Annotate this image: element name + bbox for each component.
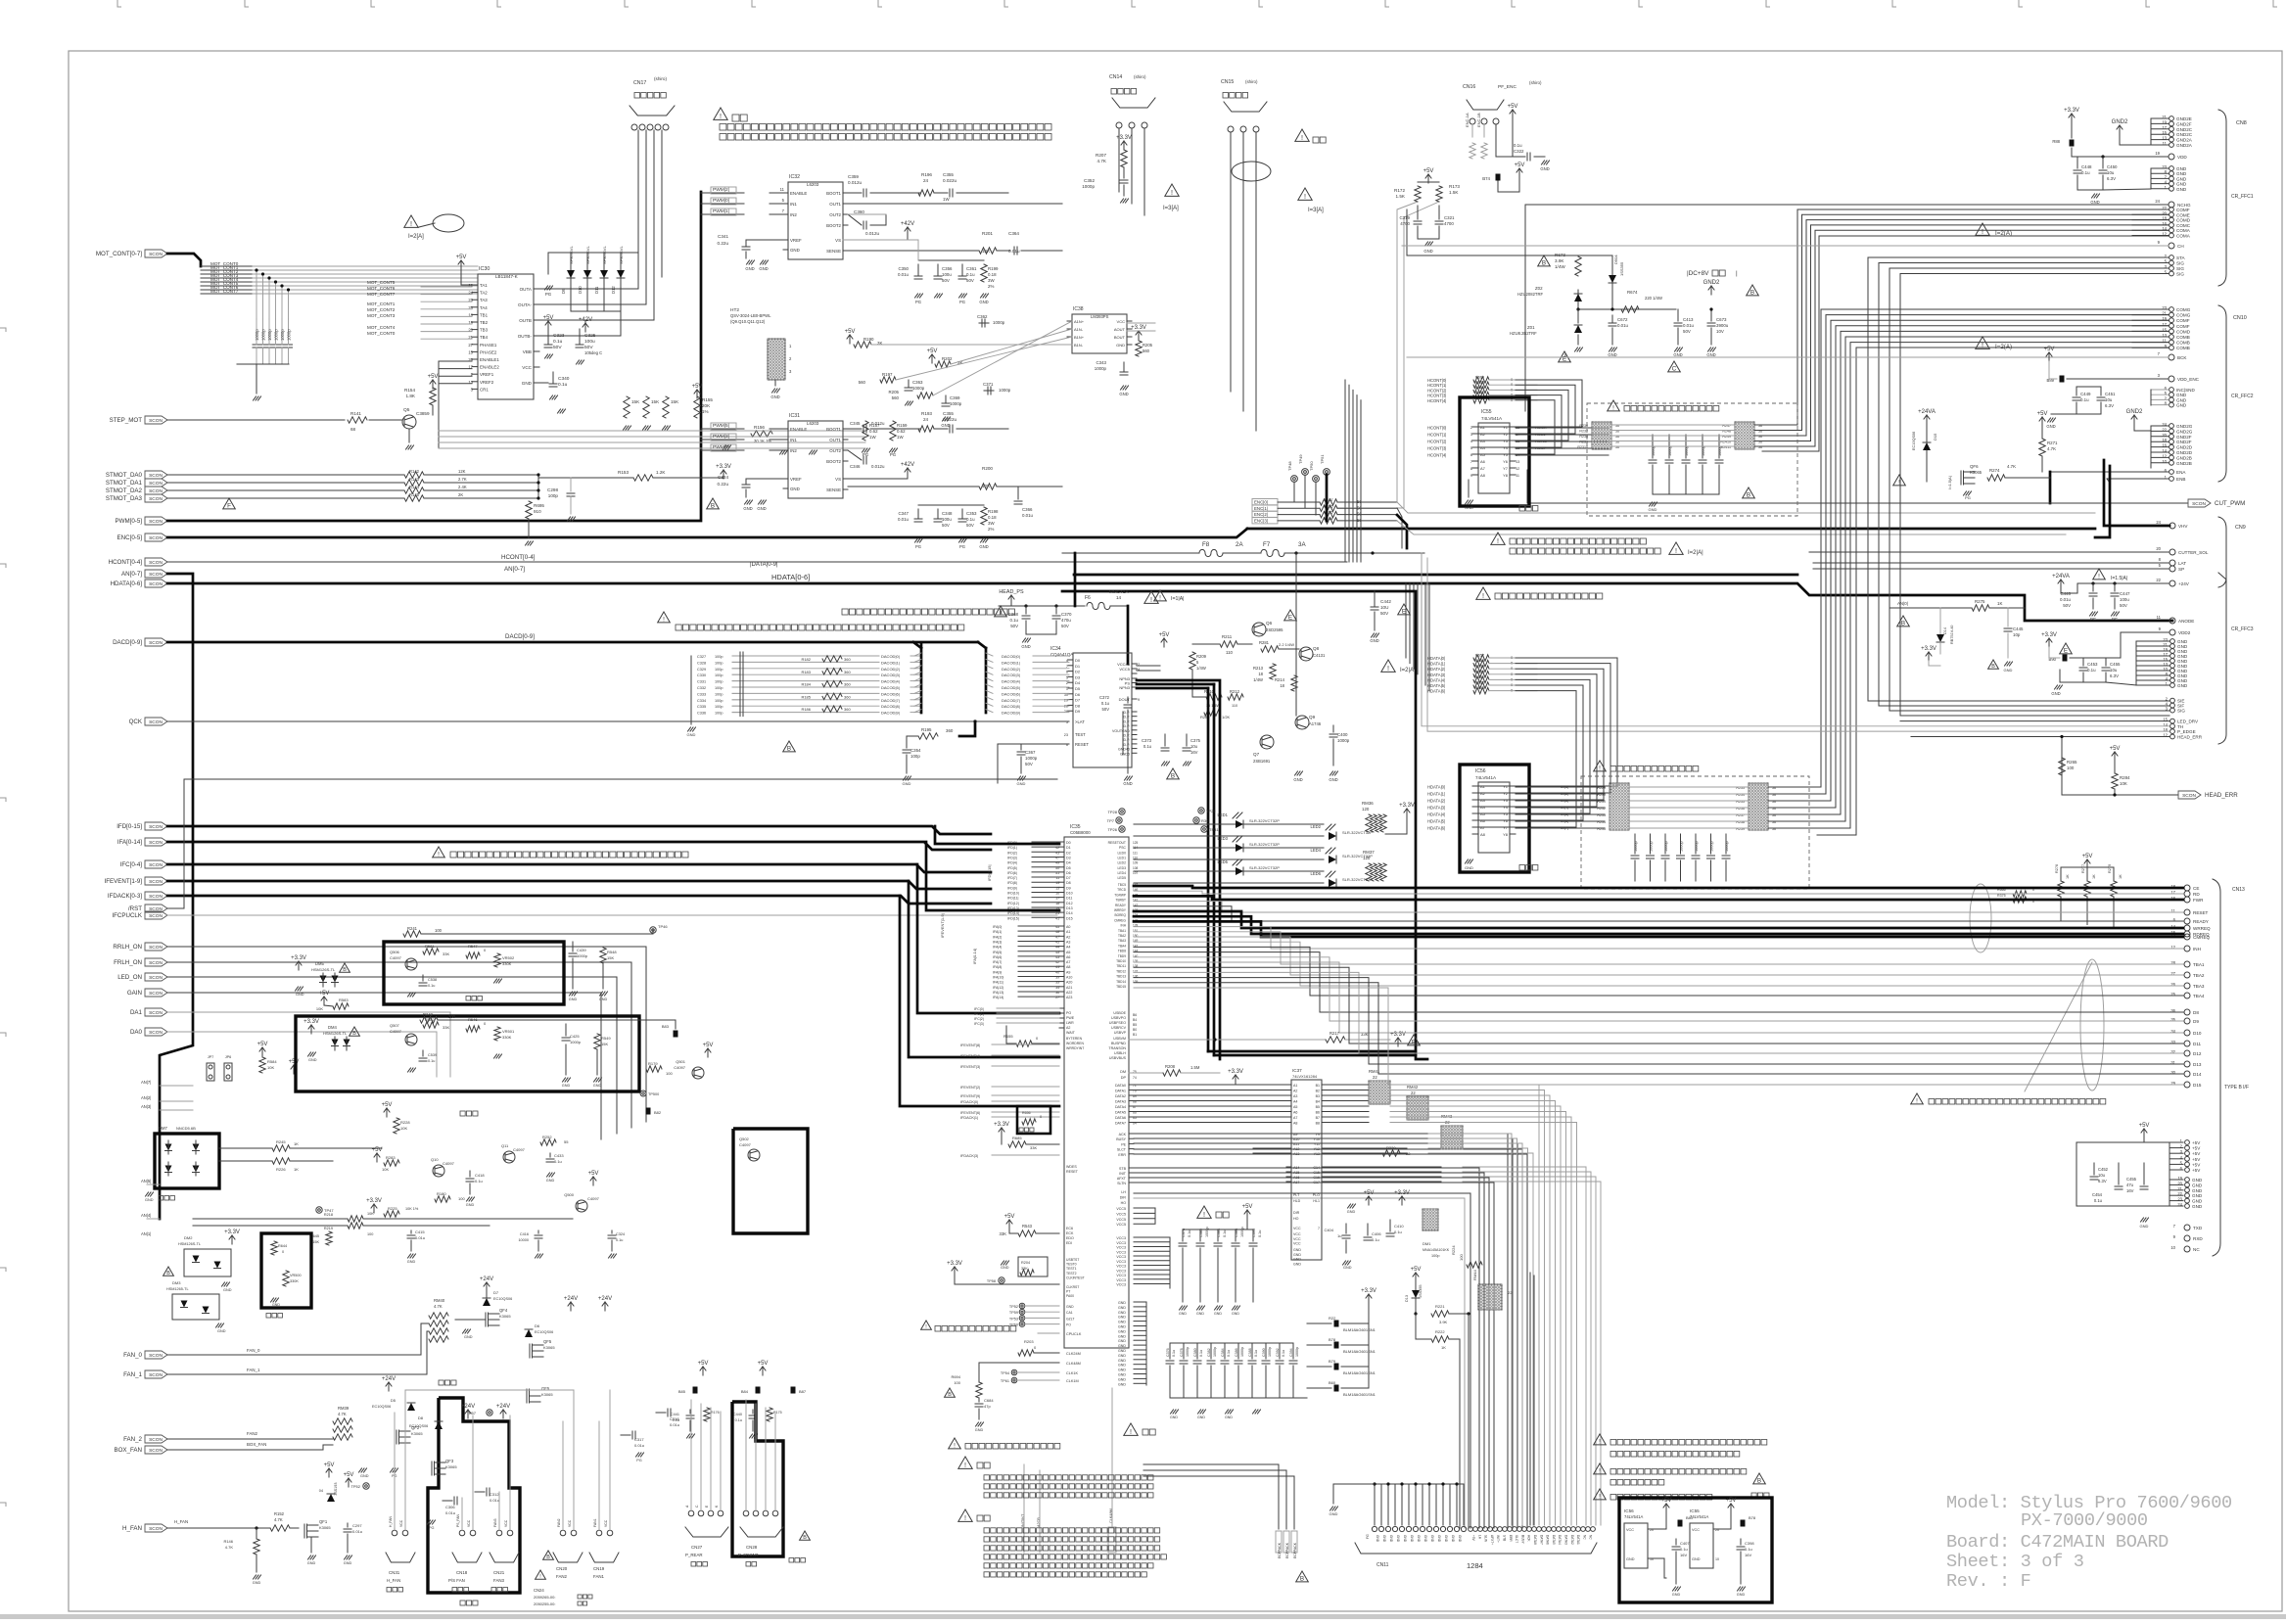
svg-text:DACOD|2|: DACOD|2| <box>881 667 900 672</box>
svg-text:C376: C376 <box>1166 1348 1170 1357</box>
svg-text:R664: R664 <box>1475 376 1484 380</box>
svg-text:TEST1: TEST1 <box>1066 1267 1077 1271</box>
svg-text:TP50: TP50 <box>1309 461 1314 471</box>
svg-text:15K: 15K <box>607 955 614 960</box>
svg-text:Y7: Y7 <box>1503 466 1509 471</box>
diode D6 EC10QS06 <box>525 1329 533 1337</box>
svg-text:!: ! <box>1982 227 1983 236</box>
small box R656 <box>1017 1106 1050 1134</box>
svg-text:D6: D6 <box>1066 871 1071 875</box>
resistor R156 30.1K 1% <box>751 431 772 437</box>
resistor R275 1K <box>1972 605 1989 611</box>
svg-text:+3.3V: +3.3V <box>1399 803 1415 809</box>
capacitor C354 100p <box>906 736 908 748</box>
svg-text:C404: C404 <box>1324 1228 1333 1232</box>
svg-text:C390: C390 <box>1262 1348 1266 1357</box>
capacitor C346 0.012u <box>848 450 862 460</box>
svg-text:USBFSEO: USBFSEO <box>1109 1021 1126 1025</box>
svg-text:C440: C440 <box>733 1413 742 1416</box>
svg-text:GND: GND <box>1444 1535 1448 1543</box>
svg-text:120: 120 <box>1363 856 1371 860</box>
svg-text:GND: GND <box>2176 403 2187 408</box>
svg-text:19: 19 <box>2155 151 2160 156</box>
svg-text:Y8: Y8 <box>1503 473 1509 478</box>
svg-text:GND: GND <box>1293 1258 1301 1262</box>
svg-text:A23: A23 <box>1066 996 1072 999</box>
svg-text:BLM18AG601SN1: BLM18AG601SN1 <box>1343 1392 1376 1397</box>
svg-text:7: 7 <box>2173 1224 2176 1229</box>
svg-text:6.3V: 6.3V <box>2107 176 2116 181</box>
svg-text:GND: GND <box>2051 691 2060 696</box>
svg-text:BUSY: BUSY <box>1116 1137 1126 1141</box>
svg-text:HO: HO <box>1121 1201 1127 1205</box>
svg-text:0: 0 <box>282 1250 284 1254</box>
svg-text:D9: D9 <box>1075 709 1081 714</box>
svg-text:D14: D14 <box>1066 911 1073 915</box>
svg-text:E: E <box>2064 647 2068 654</box>
svg-text:C416: C416 <box>520 1232 529 1236</box>
svg-text:360: 360 <box>844 682 851 687</box>
svg-text:0.01u: 0.01u <box>898 272 910 277</box>
svg-text:CN11: CN11 <box>1376 1562 1389 1568</box>
wires IC37 C outputs <box>1327 1166 1441 1168</box>
svg-text:1000p: 1000p <box>261 329 266 341</box>
svg-text:100: 100 <box>2067 766 2075 770</box>
tri B reset <box>783 741 796 752</box>
svg-text:R153: R153 <box>618 470 629 475</box>
svg-text:R146: R146 <box>223 1539 233 1544</box>
svg-text:1: 1 <box>1066 687 1068 691</box>
svg-text:HDATA|6|: HDATA|6| <box>1427 689 1445 694</box>
svg-text:C298: C298 <box>547 487 558 492</box>
svg-text:WDES: WDES <box>1066 1165 1077 1169</box>
svg-text:SCON: SCON <box>149 496 163 502</box>
svg-text:IC56: IC56 <box>1624 1508 1634 1513</box>
svg-text:DATA2: DATA2 <box>1570 1535 1574 1545</box>
svg-text:CMREG: CMREG <box>1114 918 1126 922</box>
diode D7 EC10QS06 <box>484 1282 490 1291</box>
svg-text:10u: 10u <box>1190 744 1198 749</box>
svg-text:10V: 10V <box>1716 329 1724 334</box>
testpoint TP52b <box>363 1483 369 1489</box>
svg-text:C4097: C4097 <box>390 1029 402 1034</box>
svg-text:74LV541A: 74LV541A <box>1481 416 1503 421</box>
connector CN8 NCHG pin <box>2169 202 2174 208</box>
svg-text:C392: C392 <box>1276 1348 1280 1357</box>
node GAIN <box>145 989 167 997</box>
svg-text:COMF: COMF <box>2176 208 2190 212</box>
svg-text:GND: GND <box>1293 777 1302 782</box>
svg-text:47u: 47u <box>2126 1183 2134 1187</box>
wire IFD-IFA-IFC elbow bundle <box>935 826 1059 844</box>
thick box CN28 <box>732 1402 783 1556</box>
svg-text:D9: D9 <box>1066 886 1071 890</box>
wires HCONT staircase to IC55 <box>1474 380 1582 427</box>
svg-text:A2: A2 <box>1293 1090 1297 1093</box>
svg-text:+24V: +24V <box>564 1296 578 1302</box>
svg-text:GND: GND <box>1118 1354 1126 1358</box>
svg-text:IFEVENT[1-9]: IFEVENT[1-9] <box>104 878 142 885</box>
capacitor C371 1000p <box>984 390 994 392</box>
svg-text:GND: GND <box>2192 1188 2203 1193</box>
connector CN9 bracket <box>2218 517 2226 587</box>
svg-text:VR500: VR500 <box>290 1274 302 1277</box>
svg-text:B5: B5 <box>1133 1023 1137 1027</box>
svg-text:+5V: +5V <box>372 1147 383 1153</box>
resistor R241 100 <box>403 931 421 937</box>
node FAN_0 <box>145 1351 167 1359</box>
svg-text:1000p: 1000p <box>1295 1347 1299 1357</box>
svg-text:SCON: SCON <box>149 560 163 566</box>
svg-text:HOSP: HOSP <box>1535 445 1547 450</box>
svg-text:TBD11: TBD11 <box>1116 964 1126 968</box>
svg-text:MMCT1A: MMCT1A <box>1109 589 1129 594</box>
svg-text:MOT_CONT6: MOT_CONT6 <box>367 286 396 291</box>
svg-text:SLCT: SLCT <box>1117 1148 1127 1152</box>
connector LED_DRV TH P_EDGE HEAD_ERR pins <box>2170 719 2175 723</box>
svg-text:1.5K: 1.5K <box>1396 194 1406 199</box>
svg-text:SLR-322VCT32P: SLR-322VCT32P <box>1249 842 1280 847</box>
svg-text:109: 109 <box>1133 861 1139 865</box>
svg-text:IFD|6|: IFD|6| <box>1007 871 1017 875</box>
wires q cluster <box>1192 643 1220 645</box>
svg-text:+5V: +5V <box>758 1361 769 1367</box>
svg-text:+5V: +5V <box>845 329 856 335</box>
svg-text:VCC: VCC <box>568 1519 572 1527</box>
bead B81 <box>1678 1520 1683 1527</box>
transistor Q7 2SB1691 <box>1260 735 1274 749</box>
svg-text:GND: GND <box>1626 1557 1635 1561</box>
svg-text:0.1u: 0.1u <box>1254 1350 1258 1357</box>
node FRLH_ON <box>145 958 167 966</box>
svg-text:VCC5: VCC5 <box>1116 1212 1126 1216</box>
IC55 74LV541A box <box>1460 397 1529 506</box>
svg-text:IN2: IN2 <box>790 212 797 217</box>
node STMOT_DA3 <box>145 494 167 502</box>
svg-text:TBD9: TBD9 <box>1118 954 1126 958</box>
svg-text:HZU8.2B2TRF: HZU8.2B2TRF <box>1510 331 1537 336</box>
diode D5 EC10QS06 <box>407 1403 415 1411</box>
svg-text:SI|7|: SI|7| <box>1561 825 1568 830</box>
svg-text:AN[0-7]: AN[0-7] <box>504 566 525 573</box>
svg-text:MOT_CONT7: MOT_CONT7 <box>367 292 396 297</box>
svg-text:DACOD|7|: DACOD|7| <box>1002 698 1020 703</box>
svg-text:SCON: SCON <box>149 824 163 830</box>
svg-text:C: C <box>1672 365 1677 372</box>
svg-text:R156: R156 <box>1324 503 1333 508</box>
svg-text:VCC3: VCC3 <box>1116 1269 1126 1273</box>
svg-text:Y13: Y13 <box>1314 1152 1320 1156</box>
svg-text:0.022u: 0.022u <box>943 178 956 183</box>
svg-text:STA: STA <box>2176 255 2186 260</box>
svg-text:CMREQ: CMREQ <box>2193 935 2211 940</box>
svg-text:F6: F6 <box>1085 595 1091 601</box>
svg-text:IFCPUCLK: IFCPUCLK <box>112 912 142 919</box>
resistor R152 4.7K <box>270 1525 290 1531</box>
svg-text:OUT1: OUT1 <box>829 202 841 207</box>
svg-text:0: 0 <box>1034 1345 1037 1350</box>
svg-text:R543: R543 <box>1022 1224 1033 1229</box>
svg-text:GND: GND <box>1389 1535 1393 1543</box>
resistor R153 1.2K <box>538 477 633 479</box>
svg-text:+3.3V: +3.3V <box>303 1019 319 1025</box>
svg-text:6: 6 <box>1470 453 1472 457</box>
svg-text:0.012u: 0.012u <box>865 231 879 236</box>
resistor R213 18 1/4W <box>1270 664 1276 679</box>
svg-text:SIG: SIG <box>2176 266 2184 271</box>
svg-text:C384: C384 <box>1221 1348 1225 1357</box>
node RRLH_ON <box>145 943 167 951</box>
svg-text:C324: C324 <box>616 1232 625 1236</box>
svg-text:C324: C324 <box>718 475 728 480</box>
svg-text:100: 100 <box>458 1196 465 1201</box>
warning I=1|A| <box>1154 590 1167 601</box>
note IC35 CN11 wiring <box>1594 1434 1607 1445</box>
resistor R179 100 <box>646 1066 662 1072</box>
svg-text:L6203: L6203 <box>807 182 819 187</box>
svg-text:TP47: TP47 <box>324 1208 334 1213</box>
svg-text:COMB: COMB <box>2176 346 2190 350</box>
svg-text:AOUT: AOUT <box>1114 327 1126 332</box>
svg-text:IFEVENT|2|: IFEVENT|2| <box>960 1086 980 1090</box>
svg-text:B78: B78 <box>1329 1337 1336 1342</box>
svg-text:HL1: HL1 <box>1313 1199 1320 1203</box>
svg-text:GZLT: GZLT <box>1066 1317 1074 1321</box>
svg-text:PSC: PSC <box>1119 846 1127 850</box>
svg-text:A14: A14 <box>1293 1166 1299 1170</box>
svg-text:TP52: TP52 <box>1009 1305 1018 1309</box>
svg-text:CN20: CN20 <box>556 1566 568 1571</box>
svg-text:TH: TH <box>2177 724 2183 729</box>
svg-text:10K: 10K <box>2120 781 2127 786</box>
svg-text:COMD: COMD <box>2176 329 2191 334</box>
resistor R583 10K <box>321 997 327 1005</box>
svg-text:TBA1: TBA1 <box>1118 929 1126 933</box>
svg-text:C355: C355 <box>943 411 954 416</box>
svg-text:GND: GND <box>1540 166 1549 171</box>
svg-text:R208: R208 <box>1165 1064 1176 1069</box>
svg-text:ENABLE2: ENABLE2 <box>480 365 499 370</box>
svg-text:C363: C363 <box>912 380 923 385</box>
svg-text:ENC|0|: ENC|0| <box>1254 500 1268 505</box>
svg-text:HSM126S-TL: HSM126S-TL <box>311 967 336 972</box>
svg-text:LED4: LED4 <box>1118 871 1127 875</box>
power +5V vcc <box>1244 1210 1250 1219</box>
svg-text:0: 0 <box>1511 661 1514 666</box>
svg-text:GND: GND <box>1382 1535 1386 1543</box>
svg-text:MOT_CONT[0-7]: MOT_CONT[0-7] <box>96 251 142 257</box>
resistor R221 3.9K <box>1431 1311 1449 1317</box>
svg-text:50V: 50V <box>553 345 562 350</box>
connector CN27 P_REAR <box>688 1510 694 1516</box>
svg-text:QF5: QF5 <box>543 1339 552 1344</box>
svg-text:HONG: HONG <box>1535 439 1547 443</box>
svg-text:B4: B4 <box>1133 1018 1137 1022</box>
svg-text:K3065: K3065 <box>319 1525 331 1530</box>
svg-text:IN1: IN1 <box>790 438 797 442</box>
svg-text:AN|1|: AN|1| <box>141 1231 151 1236</box>
svg-text:A5: A5 <box>1066 951 1070 954</box>
svg-text:CLKINTEST: CLKINTEST <box>1066 1276 1085 1279</box>
svg-text:100: 100 <box>448 1014 456 1019</box>
svg-text:D12: D12 <box>2193 1051 2202 1056</box>
capacitor C673 3900u 10V <box>1710 309 1712 321</box>
svg-text:GND: GND <box>790 487 800 491</box>
node IFC[0-4] <box>145 860 167 868</box>
svg-text:VS: VS <box>835 477 841 482</box>
svg-text:4700: 4700 <box>1444 221 1454 226</box>
svg-text:D2: D2 <box>1066 851 1071 855</box>
svg-text:OUT2: OUT2 <box>829 212 841 217</box>
svg-text:ECPPACK: ECPPACK <box>1278 1542 1282 1558</box>
svg-text:DATA3: DATA3 <box>1564 1535 1568 1545</box>
svg-text:1/4W: 1/4W <box>1196 666 1206 671</box>
ground IC30 right <box>545 354 553 358</box>
svg-text:GND: GND <box>1458 1535 1462 1543</box>
svg-text:HCONT|4|: HCONT|4| <box>1427 398 1446 403</box>
svg-text:100u: 100u <box>942 272 952 277</box>
svg-text:33K: 33K <box>1021 1267 1028 1271</box>
capacitor C368 0.1u 50V <box>1025 606 1027 614</box>
svg-text:10U: 10U <box>1380 605 1388 610</box>
svg-text:B1: B1 <box>1133 1033 1137 1037</box>
capacitor C398 0.1u 16V <box>1740 1539 1742 1545</box>
svg-text:JP6: JP6 <box>225 1055 232 1059</box>
svg-text:C361: C361 <box>966 266 977 271</box>
svg-text:D5: D5 <box>1075 686 1081 691</box>
svg-text:GND: GND <box>1376 1535 1379 1543</box>
svg-text:A9: A9 <box>1293 1133 1297 1137</box>
svg-text:MOT_CONT0: MOT_CONT0 <box>367 331 396 336</box>
svg-text:0: 0 <box>1511 682 1514 687</box>
svg-text:HOCK: HOCK <box>1535 425 1547 430</box>
capacitor C324 0.22u <box>746 478 788 480</box>
svg-text:1000p: 1000p <box>274 329 279 341</box>
svg-text:SPB-65VL: SPB-65VL <box>585 246 590 264</box>
svg-text:330K: 330K <box>502 961 512 966</box>
svg-text:2: 2 <box>789 356 792 361</box>
ground IC55 <box>1468 480 1470 497</box>
IC35 C05B8000 cpu <box>1064 837 1129 1348</box>
ground C368 <box>1026 633 1056 635</box>
note 2 triangle <box>1197 1206 1211 1218</box>
svg-text:!: ! <box>964 1513 966 1522</box>
svg-text:PG: PG <box>915 300 921 304</box>
svg-text:GND: GND <box>1430 1535 1434 1543</box>
svg-text:SCON: SCON <box>149 1010 163 1016</box>
IC35 ACK pins <box>1129 1134 1134 1154</box>
svg-text:Q10: Q10 <box>431 1157 439 1162</box>
capacitor C455 10u 6.3V <box>2105 658 2107 666</box>
svg-text:R201: R201 <box>982 231 993 236</box>
svg-text:GND: GND <box>2192 1204 2203 1209</box>
bead B87 <box>791 1387 796 1394</box>
svg-text:D8: D8 <box>2193 1010 2199 1015</box>
svg-text:COMB: COMB <box>2176 341 2190 346</box>
capacitor C373 C375 <box>1164 734 1166 746</box>
power +42V VBB <box>583 323 588 332</box>
svg-text:LM393PS: LM393PS <box>1091 314 1109 319</box>
svg-text:Y5: Y5 <box>1503 812 1509 816</box>
resistor R142 12K <box>167 474 404 476</box>
svg-text:I=2|A|: I=2|A| <box>1688 550 1703 556</box>
svg-text:CE: CE <box>2193 886 2199 891</box>
svg-text:R176: R176 <box>711 1411 720 1415</box>
svg-text:B1N+: B1N+ <box>1074 335 1085 340</box>
svg-text:C4097: C4097 <box>674 1065 686 1070</box>
note COM guard <box>1476 587 1490 599</box>
svg-text:+5V: +5V <box>2139 1123 2150 1129</box>
svg-text:R666: R666 <box>1475 386 1484 390</box>
svg-text:PWM|2|: PWM|2| <box>713 187 729 193</box>
dashed box IC56 caps <box>1581 776 1809 889</box>
svg-text:20: 20 <box>2156 546 2161 551</box>
wires OUTA to CN17 <box>534 288 638 290</box>
svg-text:GND: GND <box>223 1288 232 1292</box>
power +3.3V B88 <box>2069 114 2075 122</box>
svg-text:R655: R655 <box>1003 1034 1013 1039</box>
svg-text:QF3: QF3 <box>445 1459 454 1463</box>
node DA0 <box>145 1028 167 1036</box>
resistors R218 R219 <box>193 1218 348 1220</box>
ground DACD caps <box>690 713 692 724</box>
svg-text:VCC3: VCC3 <box>1116 1236 1126 1240</box>
testpoint TP48-TP51 <box>1291 476 1298 483</box>
svg-text:COMF: COMF <box>2176 318 2190 323</box>
svg-text:C306: C306 <box>445 1505 455 1509</box>
svg-text:0.1u: 0.1u <box>1223 1230 1227 1237</box>
svg-text:BLM18AG601SN1: BLM18AG601SN1 <box>1343 1349 1376 1354</box>
svg-text:18: 18 <box>1280 683 1284 688</box>
svg-text:R88: R88 <box>2052 139 2060 144</box>
svg-text:0.012u: 0.012u <box>871 421 885 426</box>
svg-text:47p: 47p <box>984 1404 991 1409</box>
svg-text:C539: C539 <box>428 1053 437 1057</box>
svg-text:+5V: +5V <box>2044 347 2055 352</box>
svg-text:1: 1 <box>789 344 792 348</box>
svg-text:CR_FFC1: CR_FFC1 <box>2231 194 2254 200</box>
capacitor C345 0.012u <box>848 428 862 430</box>
svg-text:DP: DP <box>1121 1076 1127 1080</box>
svg-text:IC37: IC37 <box>1292 1068 1302 1073</box>
node DA1 <box>145 1008 167 1016</box>
svg-text:12K: 12K <box>458 469 466 474</box>
svg-text:DA1: DA1 <box>130 1009 143 1016</box>
svg-text:R219: R219 <box>324 1227 333 1230</box>
power +42V IC31 <box>905 468 910 477</box>
svg-text:TB4: TB4 <box>480 335 489 340</box>
connector CN10 BCK pin <box>2169 354 2174 360</box>
svg-text:0: 0 <box>1511 676 1514 681</box>
IC30 LB11847-K <box>478 274 534 399</box>
svg-text:D7: D7 <box>1066 876 1071 880</box>
svg-text:1W: 1W <box>869 435 876 440</box>
svg-text:TB1: TB1 <box>480 312 489 317</box>
node FAN_1 <box>145 1370 167 1378</box>
svg-text:DACOD|9|: DACOD|9| <box>1002 711 1020 716</box>
svg-text:A5: A5 <box>1480 812 1486 816</box>
svg-text:+5V: +5V <box>1726 1498 1737 1504</box>
svg-text:DM2: DM2 <box>184 1235 193 1240</box>
svg-text:33K: 33K <box>1000 1231 1007 1236</box>
svg-text:FAN2: FAN2 <box>557 1518 561 1527</box>
svg-text:TEST0: TEST0 <box>1066 1263 1077 1267</box>
svg-text:10K: 10K <box>382 1167 389 1172</box>
note CLK48M guard <box>949 1438 961 1449</box>
svg-text:PG: PG <box>1965 495 1971 500</box>
bead B82 <box>646 1108 651 1115</box>
resistor R214 18 1/4W <box>1291 675 1297 691</box>
